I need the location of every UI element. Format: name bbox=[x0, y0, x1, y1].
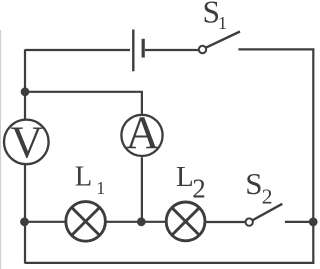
battery B1 long plate bbox=[132, 30, 134, 72]
wire top rail left bbox=[25, 49, 130, 51]
svg-text:A: A bbox=[126, 107, 160, 159]
wire left edge upper bbox=[24, 49, 26, 120]
scan artifact left edge bbox=[0, 30, 2, 269]
switch S1 pivot bbox=[199, 46, 206, 53]
svg-text:L: L bbox=[176, 161, 194, 193]
wire bottom rail bbox=[25, 262, 315, 264]
svg-text:2: 2 bbox=[262, 184, 273, 208]
node junction bottom-left bbox=[20, 217, 29, 226]
lamp L2 bbox=[166, 202, 205, 241]
svg-text:V: V bbox=[11, 117, 44, 167]
wire lamp rail segment 1 bbox=[25, 221, 65, 223]
wire lamp rail segment 2 bbox=[106, 221, 165, 223]
wire left edge lower bbox=[24, 164, 26, 264]
node junction right edge bbox=[309, 218, 318, 227]
switch S1 lever bbox=[206, 32, 240, 48]
battery B1 short plate bbox=[142, 39, 145, 58]
wire right edge bbox=[312, 49, 314, 263]
switch S2 lever bbox=[253, 204, 282, 220]
wire lamp rail segment 4 bbox=[285, 221, 313, 223]
switch S2 pivot bbox=[246, 218, 253, 225]
voltmeter V circle bbox=[4, 120, 49, 165]
wire ammeter to lamp rail bbox=[141, 157, 143, 222]
svg-text:1: 1 bbox=[218, 13, 227, 33]
wire top rail middle bbox=[145, 49, 198, 51]
svg-text:L: L bbox=[75, 162, 92, 193]
lamp L1 bbox=[66, 202, 106, 242]
ammeter A circle bbox=[121, 115, 162, 156]
node junction between lamps bbox=[137, 217, 146, 226]
wire top rail right bbox=[238, 48, 314, 50]
svg-text:S: S bbox=[245, 166, 262, 201]
wire inner rail bbox=[25, 92, 142, 114]
wire lamp rail segment 3 bbox=[206, 221, 245, 223]
node junction top-left bbox=[21, 87, 30, 96]
svg-text:1: 1 bbox=[96, 178, 105, 198]
svg-text:2: 2 bbox=[192, 173, 206, 203]
